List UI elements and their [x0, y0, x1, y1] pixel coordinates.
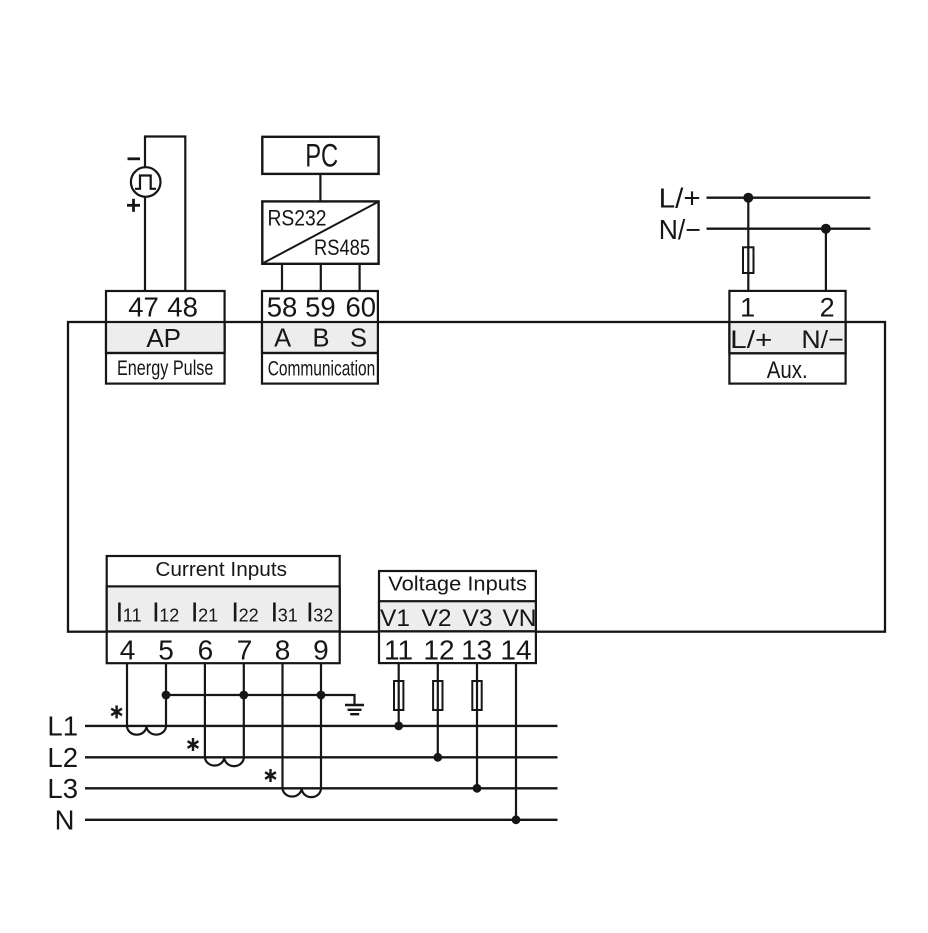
- svg-text:7: 7: [237, 635, 253, 666]
- wire terminal 14 to N: [515, 663, 517, 820]
- svg-text:59: 59: [305, 291, 336, 322]
- terminal block Aux (1,2 L/+ N/-): [729, 291, 845, 384]
- svg-text:8: 8: [275, 635, 291, 666]
- wire N/- to terminal 2: [825, 229, 827, 291]
- wire line N: [85, 819, 558, 821]
- fuse F3: [472, 681, 481, 710]
- svg-text:6: 6: [198, 635, 214, 666]
- junction 14-N: [512, 815, 521, 824]
- svg-text:11: 11: [384, 635, 413, 666]
- wire terminal 5 to CT1: [165, 663, 167, 726]
- svg-text:5: 5: [158, 635, 174, 666]
- wire terminal 8 to CT3: [281, 663, 283, 788]
- svg-text:L/+: L/+: [659, 183, 701, 214]
- svg-text:1: 1: [740, 292, 755, 322]
- svg-text:N/−: N/−: [659, 214, 701, 245]
- wire terminal 13 to L3: [476, 663, 478, 788]
- junction on N/-: [821, 224, 831, 234]
- junction 11-L1: [394, 722, 403, 731]
- svg-text:L1: L1: [47, 711, 78, 742]
- wire converter to terminal 60: [359, 264, 361, 291]
- wire L/+ supply line: [707, 196, 871, 198]
- junction 13-L3: [473, 784, 482, 793]
- junction 12-L2: [433, 753, 442, 762]
- terminal block Communication (58,59,60 A B S): [262, 291, 378, 384]
- svg-text:13: 13: [461, 635, 492, 666]
- junction wire5 common: [162, 691, 171, 700]
- junction wire7 common: [239, 691, 248, 700]
- svg-text:N/−: N/−: [801, 326, 843, 354]
- svg-text:60: 60: [346, 291, 377, 322]
- svg-text:A: A: [274, 324, 291, 352]
- svg-text:RS485: RS485: [314, 235, 370, 260]
- junction on L/+: [743, 193, 753, 203]
- svg-text:Energy Pulse: Energy Pulse: [117, 357, 214, 380]
- pulse source PS1: [131, 167, 161, 197]
- plus polarity label: [127, 199, 140, 212]
- svg-text:V3: V3: [463, 605, 493, 632]
- svg-text:Current Inputs: Current Inputs: [155, 558, 287, 581]
- svg-text:9: 9: [313, 635, 329, 666]
- wire terminal 6 to CT2: [204, 663, 206, 757]
- svg-text:Aux.: Aux.: [767, 357, 808, 384]
- wire CT common to ground: [166, 695, 355, 704]
- svg-text:L2: L2: [47, 742, 78, 773]
- svg-text:L3: L3: [47, 773, 78, 804]
- wire terminal 7 to CT2: [243, 663, 245, 757]
- svg-text:L/+: L/+: [730, 326, 772, 354]
- svg-text:VN: VN: [502, 605, 536, 632]
- polarity mark CT3: [265, 769, 276, 782]
- svg-text:AP: AP: [146, 323, 181, 353]
- svg-text:58: 58: [267, 291, 298, 322]
- wire terminal 11 to L1: [398, 663, 400, 726]
- CT1 on L1: [127, 726, 166, 735]
- wire pulse source top loop: [145, 137, 185, 292]
- wire N/- supply line: [707, 227, 871, 229]
- terminal block Voltage Inputs: [379, 571, 537, 666]
- ground symbol: [345, 705, 364, 714]
- svg-text:N: N: [55, 805, 75, 836]
- fuse F2: [433, 681, 442, 710]
- fuse F-aux: [743, 247, 754, 273]
- wire pulse source to terminal 47: [144, 197, 146, 291]
- wire terminal 4 to CT1: [126, 663, 128, 726]
- svg-text:V2: V2: [422, 605, 452, 632]
- svg-text:S: S: [350, 324, 367, 352]
- svg-text:RS232: RS232: [268, 206, 327, 231]
- minus polarity label: [128, 157, 141, 160]
- junction wire9 common: [317, 691, 326, 700]
- fuse F1: [394, 681, 403, 710]
- svg-text:Communication: Communication: [268, 357, 376, 380]
- svg-text:48: 48: [167, 291, 198, 322]
- svg-text:PC: PC: [305, 138, 338, 174]
- PC box: [262, 137, 378, 174]
- svg-text:V1: V1: [380, 605, 410, 632]
- wire converter to terminal 58: [281, 264, 283, 291]
- CT3 on L3: [283, 788, 322, 797]
- wire line L3: [85, 787, 558, 789]
- svg-text:Voltage Inputs: Voltage Inputs: [388, 573, 527, 596]
- wire line L2: [85, 756, 558, 758]
- meter outline rectangle: [68, 322, 885, 632]
- wire converter to terminal 59: [320, 264, 322, 291]
- CT2 on L2: [205, 757, 244, 766]
- wire PC to converter: [319, 174, 321, 202]
- RS232/RS485 converter box: [262, 201, 378, 263]
- wire terminal 12 to L2: [437, 663, 439, 757]
- terminal block Energy Pulse (47,48 AP): [106, 291, 225, 384]
- svg-text:B: B: [312, 324, 329, 352]
- polarity mark CT2: [188, 738, 199, 751]
- svg-text:14: 14: [500, 635, 531, 666]
- wire terminal 9 to CT3: [320, 663, 322, 788]
- wire L/+ to fuse to terminal 1: [747, 198, 749, 291]
- svg-text:2: 2: [820, 292, 835, 322]
- svg-text:4: 4: [120, 635, 136, 666]
- wire line L1: [85, 725, 558, 727]
- polarity mark CT1: [111, 705, 122, 718]
- svg-text:12: 12: [423, 635, 454, 666]
- svg-text:47: 47: [128, 291, 159, 322]
- terminal block Current Inputs: [107, 556, 340, 666]
